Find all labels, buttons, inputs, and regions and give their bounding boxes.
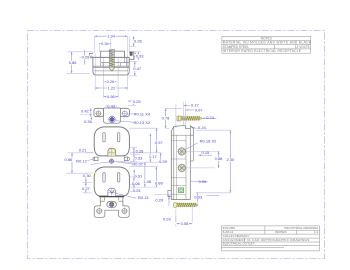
svg-text:1.34: 1.34: [107, 34, 116, 39]
svg-text:0.86: 0.86: [69, 60, 78, 65]
svg-text:0.88: 0.88: [215, 156, 224, 161]
svg-text:INCHES: INCHES: [275, 230, 287, 234]
svg-text:R0.13: R0.13: [138, 195, 149, 200]
svg-text:0.33: 0.33: [136, 53, 145, 58]
svg-text:0.26: 0.26: [107, 79, 116, 84]
svg-text:R0.12: R0.12: [76, 159, 87, 164]
svg-text:1:1: 1:1: [314, 230, 319, 234]
svg-text:0.07: 0.07: [195, 107, 204, 112]
svg-text:0.26: 0.26: [134, 39, 143, 44]
svg-text:0.78: 0.78: [162, 115, 171, 120]
svg-text:0.74: 0.74: [206, 115, 215, 120]
svg-text:0.86: 0.86: [65, 157, 74, 162]
svg-text:0.47: 0.47: [133, 66, 142, 71]
svg-text:0.58: 0.58: [181, 221, 190, 226]
svg-text:0.28: 0.28: [136, 148, 145, 153]
svg-text:0.56: 0.56: [107, 94, 116, 99]
svg-text:0.25: 0.25: [133, 99, 142, 104]
svg-text:0.97: 0.97: [155, 140, 164, 145]
svg-text:R0.11 X4: R0.11 X4: [134, 111, 151, 116]
svg-text:0.30: 0.30: [83, 173, 92, 178]
svg-text:0.33: 0.33: [134, 156, 143, 161]
svg-text:1.06: 1.06: [143, 179, 152, 184]
svg-text:0.34: 0.34: [101, 41, 110, 46]
svg-text:0.39: 0.39: [159, 159, 168, 164]
svg-text:0.28: 0.28: [82, 55, 91, 60]
svg-text:1.22: 1.22: [108, 85, 117, 90]
svg-text:0.33: 0.33: [194, 195, 203, 200]
svg-text:R0.13 X2: R0.13 X2: [133, 120, 150, 125]
svg-text:R0.18 X2: R0.18 X2: [200, 139, 217, 144]
svg-text:1.17: 1.17: [149, 154, 158, 159]
svg-text:0.16: 0.16: [198, 125, 207, 130]
svg-text:INTERIOR RATED ELECTRICAL RECE: INTERIOR RATED ELECTRICAL RECEPTACLE: [223, 49, 301, 53]
svg-text:0.15: 0.15: [202, 150, 211, 155]
svg-text:ELECTRICAL OUTLET: ELECTRICAL OUTLET: [223, 242, 255, 246]
svg-text:0.21: 0.21: [79, 147, 88, 152]
svg-text:0.31: 0.31: [134, 174, 143, 179]
svg-text:0.29: 0.29: [155, 198, 164, 203]
svg-text:0.25: 0.25: [133, 188, 142, 193]
svg-text:0.88: 0.88: [155, 180, 164, 185]
svg-text:0.43: 0.43: [107, 103, 116, 108]
svg-text:0.27: 0.27: [82, 186, 91, 191]
svg-text:0.42: 0.42: [81, 108, 90, 113]
svg-text:0.06: 0.06: [132, 181, 141, 186]
svg-text:0.36: 0.36: [84, 119, 93, 124]
svg-text:2.30: 2.30: [226, 157, 235, 162]
svg-text:0.03: 0.03: [163, 216, 172, 221]
svg-text:0.06: 0.06: [199, 179, 208, 184]
